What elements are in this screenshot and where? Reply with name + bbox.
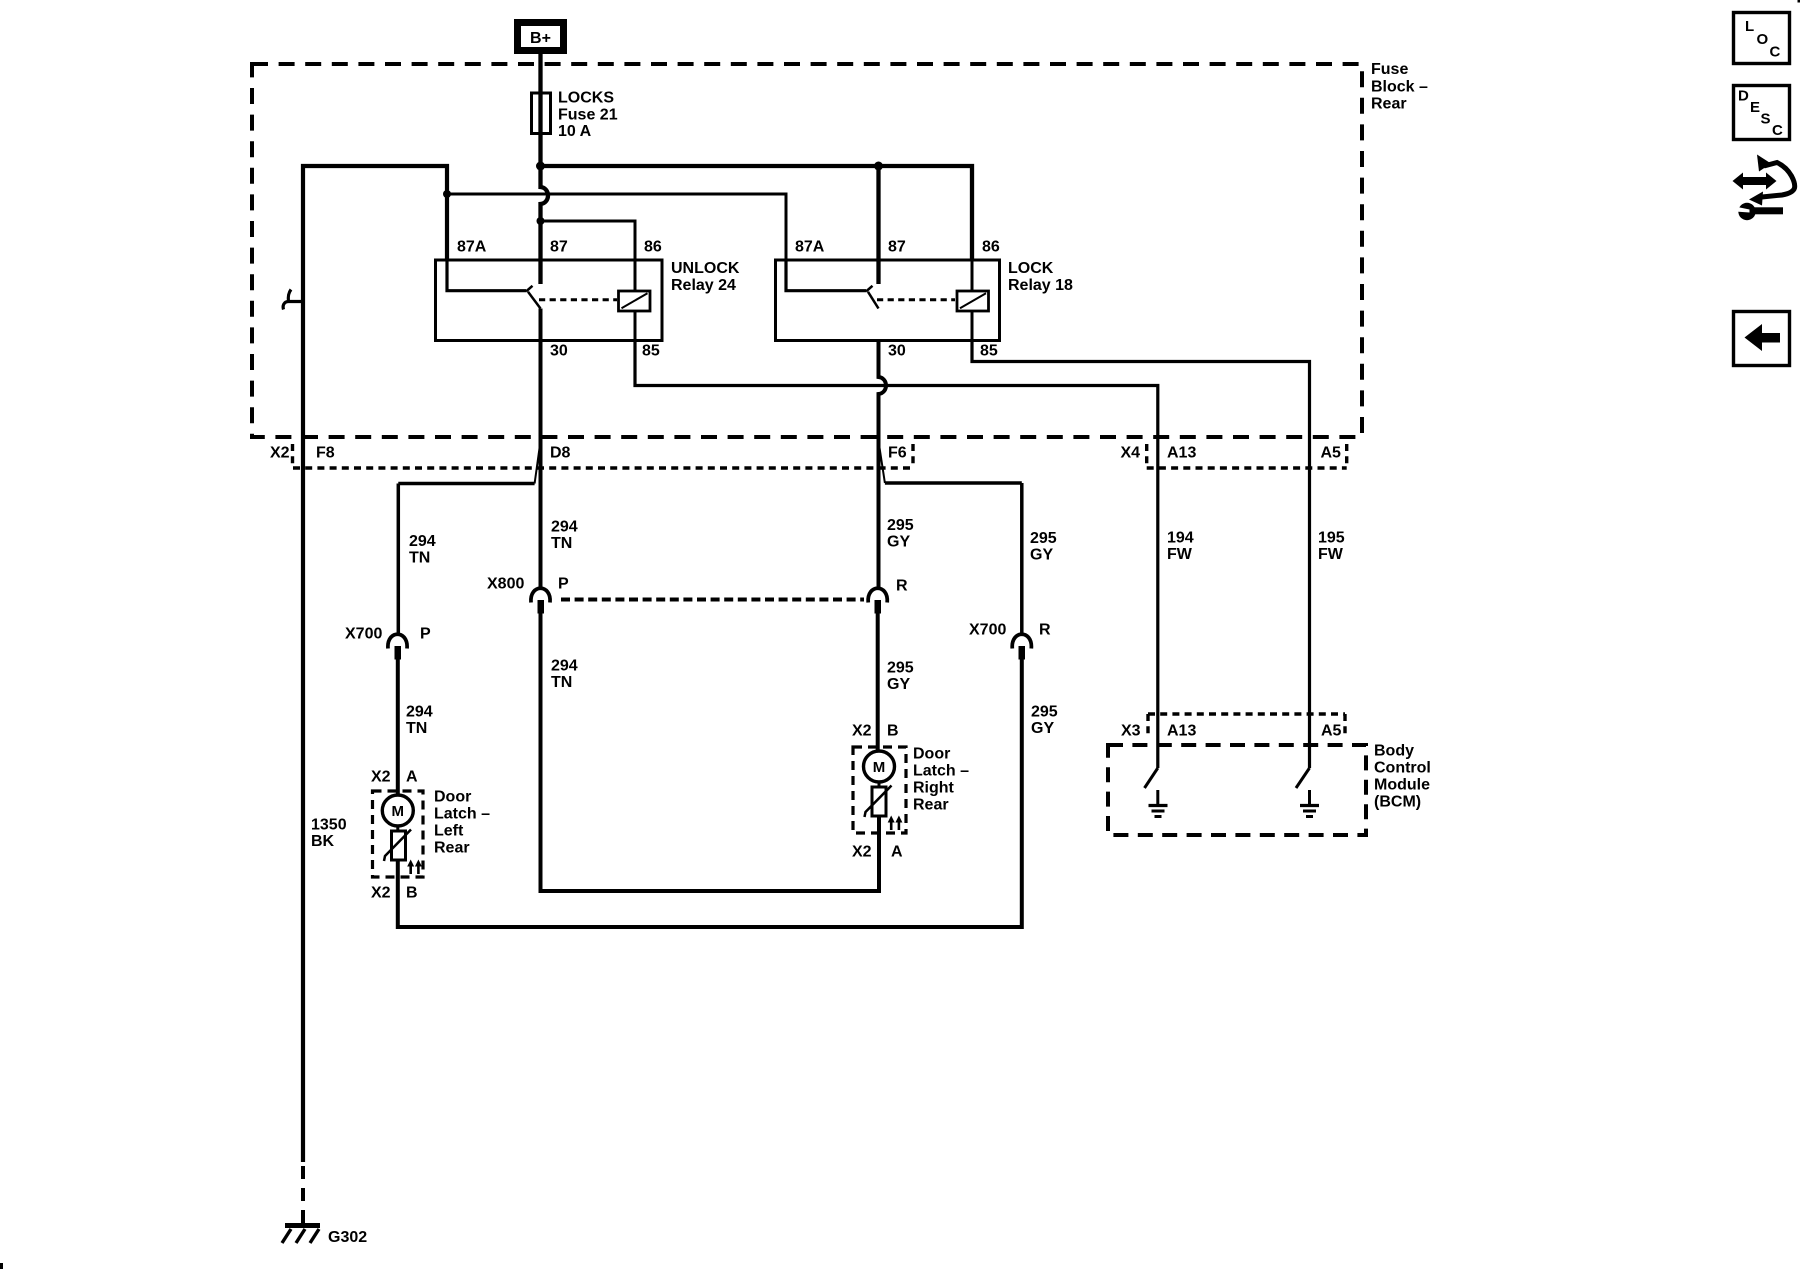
wire: LOCK relay pin 87 drop <box>876 166 880 284</box>
label: UNLOCK Relay 24 <box>671 260 740 294</box>
wire: dashed drop to G302 <box>301 1166 305 1224</box>
connector X700 R <box>1012 634 1031 659</box>
svg-text:Rear: Rear <box>913 797 949 814</box>
label: Fuse Block - Rear <box>1371 61 1428 113</box>
labels: connector row <box>270 445 1341 462</box>
svg-text:B: B <box>406 885 418 902</box>
wire labels: 194 FW / 195 FW <box>1167 530 1194 564</box>
svg-text:X4: X4 <box>1121 445 1141 462</box>
svg-text:295: 295 <box>887 660 914 677</box>
wire: unlock control y194 to LOCK 87A <box>447 194 786 260</box>
svg-text:10 A: 10 A <box>558 123 592 140</box>
svg-text:F8: F8 <box>316 445 335 462</box>
svg-text:295: 295 <box>1031 704 1058 721</box>
svg-text:Door: Door <box>913 746 950 763</box>
svg-text:Block –: Block – <box>1371 79 1428 96</box>
svg-text:P: P <box>558 576 569 593</box>
svg-text:LOCK: LOCK <box>1008 260 1054 277</box>
wire: UNLOCK 30 down to X800 P <box>539 309 543 591</box>
svg-text:295: 295 <box>887 517 914 534</box>
BCM switch A5 <box>1296 768 1310 788</box>
svg-text:30: 30 <box>888 343 906 360</box>
label 1350 BK <box>311 817 347 851</box>
svg-text:X2: X2 <box>852 723 872 740</box>
svg-text:B+: B+ <box>530 30 551 47</box>
svg-text:Body: Body <box>1374 743 1414 760</box>
wire: LOCK 30 down with hop to X800 R <box>879 341 887 591</box>
svg-text:Fuse 21: Fuse 21 <box>558 107 618 124</box>
svg-text:87A: 87A <box>457 239 487 256</box>
wire labels: lower runs <box>551 658 578 692</box>
svg-text:86: 86 <box>982 239 1000 256</box>
wire labels: 294 TN upper pair <box>551 519 578 553</box>
svg-text:30: 30 <box>550 343 568 360</box>
svg-text:87: 87 <box>888 239 906 256</box>
connector X800 R <box>868 588 887 613</box>
wire: D8 branch jog to X700 P <box>535 441 541 484</box>
BCM connector row X3 <box>1148 712 1345 715</box>
svg-text:GY: GY <box>887 534 910 551</box>
svg-text:BK: BK <box>311 833 335 850</box>
svg-text:Module: Module <box>1374 777 1430 794</box>
svg-text:Control: Control <box>1374 760 1431 777</box>
Body Control Module dashed box <box>1108 745 1366 835</box>
svg-text:X2: X2 <box>852 844 872 861</box>
svg-text:G302: G302 <box>328 1229 367 1246</box>
junction node at 87A feed <box>443 190 451 198</box>
LOCK Relay 18 <box>776 260 1000 341</box>
UNLOCK Relay 24 <box>436 260 663 341</box>
svg-text:FW: FW <box>1318 546 1344 563</box>
svg-text:R: R <box>896 578 908 595</box>
label: Body Control Module (BCM) <box>1374 743 1431 811</box>
junction node: main feed at y166 <box>536 162 545 171</box>
ground inside BCM (A5) <box>1300 790 1319 817</box>
Door Latch - Left Rear <box>373 791 424 877</box>
wire: B+ down through fuse, hop, to UNLOCK pin 87 <box>541 54 549 284</box>
svg-text:L: L <box>1745 18 1754 35</box>
svg-text:294: 294 <box>409 533 436 550</box>
svg-text:TN: TN <box>551 535 572 552</box>
svg-text:X3: X3 <box>1121 723 1141 740</box>
svg-text:X2: X2 <box>371 885 391 902</box>
svg-text:85: 85 <box>642 343 660 360</box>
svg-text:UNLOCK: UNLOCK <box>671 260 740 277</box>
svg-text:85: 85 <box>980 343 998 360</box>
icon: LOC button <box>1734 13 1790 64</box>
svg-text:E: E <box>1750 99 1760 116</box>
svg-text:LOCKS: LOCKS <box>558 90 614 107</box>
svg-text:D8: D8 <box>550 445 571 462</box>
svg-text:FW: FW <box>1167 546 1193 563</box>
svg-text:X800: X800 <box>487 576 524 593</box>
connector bracket X4 <box>1145 444 1148 468</box>
connector bracket end A5 <box>1345 444 1348 468</box>
svg-text:A: A <box>891 844 903 861</box>
wire: X700 R down, across y927 to left latch B <box>398 658 1022 927</box>
svg-text:R: R <box>1039 622 1051 639</box>
label: LOCK Relay 18 <box>1008 260 1073 294</box>
svg-text:B: B <box>887 723 899 740</box>
wire labels: 295 GY upper pair <box>887 517 914 551</box>
svg-text:Relay 18: Relay 18 <box>1008 277 1073 294</box>
labels: UNLOCK relay pins <box>457 239 662 360</box>
svg-text:Latch –: Latch – <box>434 806 490 823</box>
svg-text:O: O <box>1757 31 1769 48</box>
svg-text:D: D <box>1738 88 1749 105</box>
ground G302 <box>282 1226 320 1244</box>
svg-text:GY: GY <box>1030 547 1053 564</box>
wire: lock control y221 to UNLOCK 86 <box>541 221 636 260</box>
svg-text:87A: 87A <box>795 239 825 256</box>
svg-text:Latch –: Latch – <box>913 763 969 780</box>
junction node at UNLOCK 86 feed <box>537 217 545 225</box>
Door Latch - Right Rear <box>853 747 906 833</box>
svg-text:195: 195 <box>1318 530 1345 547</box>
svg-text:M: M <box>873 759 886 776</box>
svg-text:X700: X700 <box>969 622 1006 639</box>
label X700 P <box>345 626 431 643</box>
connector X800 P <box>531 588 550 613</box>
labels: LOCK relay pins <box>795 239 1000 360</box>
wire: F6 branch jog to X700 R <box>879 441 885 483</box>
svg-text:P: P <box>420 626 431 643</box>
svg-text:X2: X2 <box>270 445 290 462</box>
svg-text:A: A <box>406 769 418 786</box>
label X800 P <box>487 576 569 593</box>
connector X700 P <box>388 634 407 659</box>
connector bracket end F6 <box>911 444 914 468</box>
svg-text:S: S <box>1761 111 1771 128</box>
svg-text:X2: X2 <box>371 769 391 786</box>
icon: DESC button <box>1734 86 1790 140</box>
branch curl on 1350 BK wire <box>283 290 303 310</box>
svg-text:Right: Right <box>913 780 955 797</box>
svg-text:294: 294 <box>551 519 578 536</box>
svg-text:X700: X700 <box>345 626 382 643</box>
connector row: X2 / X4 dotted line <box>293 466 913 469</box>
wire: X800 R down to right latch B <box>876 612 880 752</box>
svg-text:A13: A13 <box>1167 723 1196 740</box>
svg-text:1350: 1350 <box>311 817 347 834</box>
svg-text:Left: Left <box>434 823 464 840</box>
icon: diagnostic arrows and wrench <box>1733 155 1795 221</box>
label: Door Latch - Right Rear <box>913 746 969 814</box>
svg-text:194: 194 <box>1167 530 1194 547</box>
svg-text:A13: A13 <box>1167 445 1196 462</box>
svg-text:294: 294 <box>406 704 433 721</box>
junction node: LOCK 87 tap <box>874 162 883 171</box>
ground inside BCM (A13) <box>1149 790 1168 817</box>
svg-text:A5: A5 <box>1321 445 1342 462</box>
label: Door Latch - Left Rear <box>434 789 490 857</box>
connector bracket X2 <box>291 444 294 468</box>
wire: feed to LOCK relay pin 86 <box>541 166 973 260</box>
labels: left latch pins <box>371 769 418 902</box>
svg-text:295: 295 <box>1030 530 1057 547</box>
icon: back arrow button <box>1734 312 1790 366</box>
wire: ground feed 1350 BK (left) <box>303 166 447 1162</box>
svg-text:Fuse: Fuse <box>1371 61 1408 78</box>
svg-text:86: 86 <box>644 239 662 256</box>
svg-text:C: C <box>1770 44 1781 61</box>
svg-text:TN: TN <box>409 550 430 567</box>
svg-text:M: M <box>392 803 405 820</box>
svg-text:294: 294 <box>551 658 578 675</box>
B+ battery feed symbol <box>518 23 564 51</box>
label X700 R <box>969 622 1051 639</box>
svg-text:TN: TN <box>551 674 572 691</box>
svg-text:TN: TN <box>406 720 427 737</box>
svg-text:GY: GY <box>1031 720 1054 737</box>
Fuse Block - Rear dashed border <box>252 64 1362 437</box>
labels: BCM connector row <box>1121 723 1342 740</box>
svg-text:GY: GY <box>887 676 910 693</box>
svg-text:87: 87 <box>550 239 568 256</box>
wire: UNLOCK 85 to BCM A13 <box>635 341 1158 769</box>
svg-text:F6: F6 <box>888 445 907 462</box>
BCM switch A13 <box>1145 768 1158 788</box>
svg-text:C: C <box>1772 122 1783 139</box>
svg-text:Door: Door <box>434 789 471 806</box>
wire: X700 P down to left latch A <box>396 658 400 796</box>
svg-text:Rear: Rear <box>1371 96 1407 113</box>
fuse LOCKS Fuse 21 10 A <box>532 93 551 134</box>
svg-text:A5: A5 <box>1321 723 1342 740</box>
in-line harness dashed link X800 <box>561 598 864 602</box>
wire: X800 P down, across y891 to right latch A <box>541 612 880 891</box>
svg-text:Relay 24: Relay 24 <box>671 277 736 294</box>
wire: LOCK 85 to BCM A5 <box>972 341 1310 769</box>
svg-text:Rear: Rear <box>434 840 470 857</box>
labels: right latch pins <box>852 723 903 861</box>
svg-text:(BCM): (BCM) <box>1374 794 1421 811</box>
corner artifact marks <box>1798 0 1800 3</box>
